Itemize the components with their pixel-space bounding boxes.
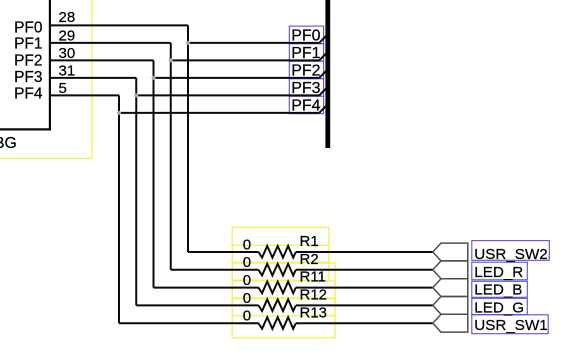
svg-text:LED_R: LED_R: [474, 264, 523, 281]
net label PF3 box: [289, 79, 323, 97]
wire R2 to off-page connector: [296, 269, 433, 271]
svg-text:R2: R2: [300, 251, 319, 268]
wire R12 to off-page connector: [296, 304, 433, 306]
junction PF0: [186, 41, 190, 45]
off-page connector LED_G: [433, 297, 468, 315]
svg-text:PF3: PF3: [14, 69, 42, 86]
svg-text:PF0: PF0: [14, 19, 43, 36]
svg-text:0: 0: [243, 272, 251, 289]
wire R13 to off-page connector: [296, 322, 433, 324]
wire pin PF1 horizontal: [49, 42, 171, 44]
svg-text:USR_SW1: USR_SW1: [474, 317, 547, 334]
off-page connector USR_SW1: [433, 314, 468, 332]
IC U1 block border: [0, 0, 51, 129]
resistor R11 body: [258, 282, 295, 294]
svg-text:R13: R13: [300, 304, 328, 321]
bus entry PF0: [319, 35, 326, 43]
wire PF2 net label branch: [154, 77, 320, 79]
selection box R13 (yellow): [232, 299, 335, 338]
svg-text:0: 0: [243, 236, 251, 253]
svg-text:R11: R11: [300, 269, 326, 286]
svg-text:0: 0: [243, 254, 251, 271]
junction PF1: [169, 58, 173, 62]
wire PF4 vertical drop: [118, 95, 120, 323]
net label PF1 box: [289, 44, 323, 62]
resistor R13 body: [258, 317, 295, 329]
bus entry PF3: [319, 88, 326, 96]
resistor R2 body: [258, 264, 295, 276]
wire PF2 vertical drop: [153, 60, 155, 287]
wire PF3 vertical drop: [135, 78, 137, 306]
net label PF4 box: [289, 96, 323, 114]
resistor R1 body: [258, 246, 295, 258]
net label LED_R box: [472, 262, 528, 280]
selection box R1 (yellow): [232, 227, 329, 262]
wire pin PF0 horizontal: [49, 24, 188, 26]
wire pin PF4 horizontal: [49, 94, 119, 96]
net label PF0 box: [289, 26, 323, 44]
net label LED_B box: [472, 281, 528, 297]
bus entry PF2: [319, 70, 326, 78]
svg-text:R1: R1: [300, 233, 319, 250]
net label PF2 box: [289, 61, 323, 79]
selection box U1 (yellow): [0, 0, 92, 158]
svg-text:PF0: PF0: [291, 28, 320, 45]
wire pin PF3 horizontal: [49, 77, 136, 79]
junction PF3: [134, 93, 138, 97]
off-page connector USR_SW2: [433, 243, 468, 261]
selection box R11 (yellow): [232, 263, 335, 298]
wire R1 to off-page connector: [296, 251, 433, 253]
svg-text:PF3: PF3: [291, 80, 320, 97]
svg-text:PF4: PF4: [14, 85, 43, 102]
off-page connector LED_R: [433, 261, 468, 279]
svg-text:PF1: PF1: [14, 36, 42, 53]
net label USR_SW1 box: [472, 315, 548, 334]
wire PF1 vertical drop: [170, 43, 172, 270]
svg-text:LED_B: LED_B: [474, 282, 522, 299]
svg-text:LED_G: LED_G: [474, 299, 524, 316]
resistor R12 body: [258, 299, 295, 311]
svg-text:29: 29: [59, 27, 76, 44]
selection box R2 (yellow): [232, 245, 329, 280]
svg-text:PF2: PF2: [14, 52, 42, 69]
junction PF4: [117, 111, 121, 115]
selection box R12 (yellow): [232, 281, 335, 316]
bus (thick vertical): [325, 0, 330, 148]
wire PF1 net label branch: [171, 59, 319, 61]
wire PF2 to resistor R11: [154, 287, 259, 289]
junction PF2: [152, 76, 156, 80]
svg-text:USR_SW2: USR_SW2: [474, 246, 547, 263]
svg-text:31: 31: [59, 62, 76, 79]
wire PF1 to resistor R2: [171, 269, 259, 271]
svg-text:5: 5: [59, 80, 67, 97]
wire PF4 to resistor R13: [119, 322, 259, 324]
net label USR_SW2 box: [472, 241, 550, 261]
wire PF3 net label branch: [136, 94, 319, 96]
wire PF3 to resistor R12: [136, 304, 258, 306]
svg-text:PF2: PF2: [291, 63, 320, 80]
svg-text:BG: BG: [0, 135, 17, 152]
net label LED_G box: [472, 298, 528, 314]
svg-text:28: 28: [59, 9, 76, 26]
wire PF4 net label branch: [119, 112, 319, 114]
svg-text:30: 30: [59, 45, 76, 62]
wire PF0 vertical drop: [187, 25, 189, 252]
off-page connector LED_B: [433, 279, 468, 297]
svg-text:PF4: PF4: [291, 98, 320, 115]
svg-text:0: 0: [243, 290, 251, 307]
bus entry PF1: [319, 53, 326, 61]
wire PF0 to resistor R1: [188, 251, 259, 253]
svg-text:0: 0: [243, 308, 251, 325]
wire PF0 net label branch: [188, 42, 319, 44]
wire pin PF2 horizontal: [49, 59, 154, 61]
svg-text:R12: R12: [300, 287, 328, 304]
svg-text:PF1: PF1: [291, 45, 320, 62]
bus entry PF4: [319, 105, 326, 113]
wire R11 to off-page connector: [296, 287, 433, 289]
